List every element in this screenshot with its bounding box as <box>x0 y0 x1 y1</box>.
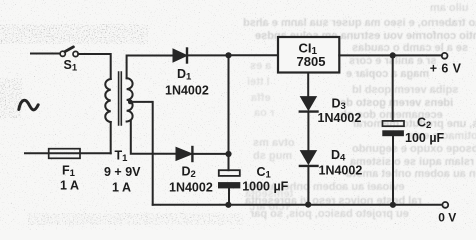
svg-text:0 V: 0 V <box>438 210 456 224</box>
transformer T1 primary winding <box>105 79 110 122</box>
0V terminal <box>442 202 448 208</box>
svg-text:D4: D4 <box>331 148 346 164</box>
rail junction dot under C1 <box>225 202 231 208</box>
wire CI1 output to +6V terminal <box>339 54 442 56</box>
wire node C down to capacitor C2 <box>392 55 394 121</box>
transformer center tap dot <box>128 100 133 105</box>
wire D2 cathode to node B <box>192 153 228 155</box>
diode D1 <box>173 49 187 63</box>
wire from AC left through fuse to primary <box>25 152 111 154</box>
wire secondary bottom to D2 anode <box>131 121 176 154</box>
wire secondary top to D1 anode <box>127 56 173 79</box>
svg-text:T1: T1 <box>115 149 129 165</box>
wire transformer primary bottom to fuse line <box>110 122 112 153</box>
svg-text:100 µF: 100 µF <box>405 131 445 145</box>
svg-text:C2: C2 <box>417 116 431 132</box>
capacitor C1 bottom plate <box>218 182 240 188</box>
svg-text:1N4002: 1N4002 <box>318 111 362 125</box>
node C junction dot <box>390 52 396 58</box>
wire node B down to capacitor C1 <box>228 154 230 170</box>
+6V terminal <box>442 53 448 59</box>
capacitor C2 top plate <box>383 121 405 126</box>
svg-text:F1: F1 <box>62 164 76 180</box>
wire center tap to bottom rail <box>130 102 152 205</box>
node A junction dot <box>225 52 231 58</box>
svg-text:+ 6 V: + 6 V <box>430 62 462 76</box>
wire C1 to bottom rail <box>228 188 230 204</box>
bottom 0V rail <box>153 204 442 206</box>
diode D3 <box>300 97 318 112</box>
rail junction dot under C2 <box>390 202 396 208</box>
svg-text:1 A: 1 A <box>112 181 131 195</box>
svg-text:7805: 7805 <box>297 54 326 69</box>
svg-text:D1: D1 <box>177 67 192 83</box>
svg-text:1000 µF: 1000 µF <box>242 180 288 194</box>
capacitor C2 bottom plate <box>382 130 404 136</box>
node D junction dot <box>305 202 311 208</box>
svg-text:D2: D2 <box>182 165 196 181</box>
transformer T1 secondary winding <box>127 78 133 121</box>
capacitor C1 top plate <box>219 170 240 176</box>
svg-text:1N4002: 1N4002 <box>319 164 363 178</box>
svg-text:1N4002: 1N4002 <box>169 180 213 194</box>
fuse F1 body <box>49 149 80 159</box>
diode D4 <box>300 151 318 166</box>
svg-text:9 + 9V: 9 + 9V <box>104 165 141 179</box>
wire node A to CI1 input <box>229 54 279 56</box>
wire from AC left to switch S1 <box>31 53 60 55</box>
wire D3 to D4 <box>307 113 309 151</box>
svg-text:1 A: 1 A <box>60 179 79 193</box>
wire D1 cathode to node A <box>187 54 229 56</box>
wire node A down to node B <box>228 55 230 154</box>
switch S1 <box>60 47 78 57</box>
transformer core <box>119 72 122 125</box>
AC source squiggle <box>19 100 38 110</box>
diode D2 <box>176 147 192 161</box>
svg-text:D3: D3 <box>332 97 346 113</box>
svg-text:S1: S1 <box>64 58 78 74</box>
wire CI1 ground pin down to D3 <box>307 73 309 97</box>
svg-text:C1: C1 <box>257 165 272 181</box>
wire D4 to bottom rail <box>307 167 309 205</box>
regulator CI1 box <box>278 37 339 73</box>
wire from S1 to transformer primary top <box>78 54 111 79</box>
node B junction dot <box>225 151 231 157</box>
wire C2 to bottom rail <box>392 136 394 205</box>
svg-text:1N4002: 1N4002 <box>165 83 209 97</box>
bleed-through mirrored text <box>430 2 469 14</box>
